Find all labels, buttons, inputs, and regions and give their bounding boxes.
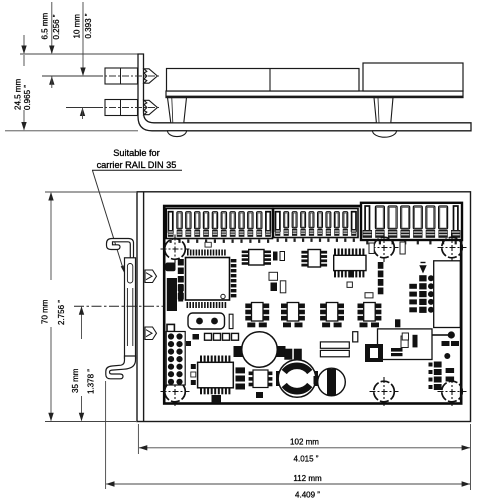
QFN IC U5 top pins <box>200 356 202 362</box>
side view: terminal blocks group 1+2 <box>167 69 360 92</box>
mounting hole 2 <box>374 237 395 258</box>
dimension 6.5 mm line <box>51 2 53 53</box>
terminal strip group 1 <box>166 209 272 239</box>
right edge pads cluster <box>442 341 450 346</box>
passive column left of U1 <box>178 259 184 266</box>
small pads right of J1 <box>178 284 183 289</box>
side view: screw 1 threaded tip <box>144 69 158 83</box>
dimension 102 mm <box>139 447 470 449</box>
svg-text:10 mm: 10 mm <box>73 14 82 39</box>
tiny parts left of U5 <box>191 364 196 369</box>
svg-text:4.409 ”: 4.409 ” <box>295 491 320 500</box>
side view: standoff 1 <box>168 98 187 123</box>
svg-text:2.756 ”: 2.756 ” <box>57 300 66 325</box>
DIN clip body slot <box>127 264 132 284</box>
svg-text:1.378 ”: 1.378 ” <box>87 369 96 394</box>
power module A (right) <box>434 261 461 328</box>
right edge DIP switch column <box>434 362 442 368</box>
svg-text:carrier RAIL DIN 35: carrier RAIL DIN 35 <box>97 160 177 170</box>
pin header 2x7 <box>166 332 185 386</box>
mounting hole 1 <box>165 239 186 260</box>
DIN clip right tab 1 <box>145 270 157 283</box>
wire from module B to pad <box>432 334 448 336</box>
QFN IC U5 body <box>198 362 234 388</box>
side view: screw 2 threaded tip <box>144 100 158 114</box>
QFP IC U1 top pin row <box>187 250 189 256</box>
passive column below hole 2 <box>378 262 384 269</box>
SOIC U2 <box>249 250 264 266</box>
right pads pairs <box>446 368 455 373</box>
caps right of U2 <box>273 252 278 261</box>
SOIC U3 <box>308 250 321 268</box>
electrolytic capacitor C2 <box>314 376 319 385</box>
svg-text:6.5 mm: 6.5 mm <box>41 12 50 39</box>
carrier plate inner fold line <box>143 193 145 422</box>
dimension 112 mm <box>106 483 470 485</box>
mounting hole 3 <box>442 237 463 258</box>
dimension 70 mm <box>50 193 52 280</box>
side view: rivet bump 1 under plate <box>168 131 187 137</box>
regulator U7 <box>365 344 383 362</box>
dimension 35 mm <box>81 307 83 339</box>
side view: screw 2 body <box>105 100 138 116</box>
jumper/relay block with 2 holes <box>188 313 225 329</box>
DIN clip body <box>125 258 136 358</box>
PCB board outline <box>164 206 461 404</box>
mounting hole 4 <box>165 381 186 402</box>
small parts lower right of module B <box>395 319 400 327</box>
electrolytic capacitor C1 <box>242 332 278 368</box>
side view: screw 2 centerline <box>66 107 96 109</box>
QFP IC U1 right pin column <box>231 259 234 298</box>
dimension 10 mm line <box>82 2 84 75</box>
small part below G2 <box>369 243 374 254</box>
DIN clip lower spring hook <box>106 356 136 379</box>
side view: top reference line <box>20 53 138 55</box>
side view: screw 1 centerline <box>42 75 96 77</box>
terminal strip group 3 (heavy) <box>361 203 462 240</box>
dimension 24.5 mm line <box>23 35 25 53</box>
part at bottom border <box>212 395 222 403</box>
small part above U1 <box>205 242 211 247</box>
mounting hole 5 <box>374 381 395 402</box>
svg-text:24.5 mm: 24.5 mm <box>14 79 23 110</box>
mounting hole 6 <box>442 381 463 402</box>
LED indicator block with arrow <box>419 265 426 273</box>
toroid inductor L1 pads above <box>284 349 292 360</box>
carrier plate outline 102x70 <box>137 192 471 422</box>
QFP IC U1 bottom pin row <box>187 302 189 308</box>
side view: terminal block group 3 <box>363 63 463 91</box>
via <box>221 294 225 298</box>
small part below G3 <box>400 242 405 254</box>
svg-text:0.965 ”: 0.965 ” <box>23 85 32 110</box>
leader line to DIN clip <box>93 171 124 271</box>
svg-text:Suitable for: Suitable for <box>113 148 159 158</box>
centerline of DIN rail <box>74 305 164 307</box>
DIN clip upper hook <box>107 239 134 259</box>
side view: rivet bump 2 under plate <box>373 131 397 137</box>
transformer row <box>252 303 264 322</box>
toroid inductor L1 <box>278 360 316 398</box>
70 mm extension lines <box>45 191 136 193</box>
side view: mounting bracket L-profile with carrier plate <box>138 54 471 131</box>
side view: screw 1 body <box>105 68 138 84</box>
svg-text:112 mm: 112 mm <box>293 474 322 483</box>
white box on left edge <box>167 324 174 331</box>
QFP IC U1 body <box>186 258 230 301</box>
mid passives cluster <box>269 272 278 280</box>
DIN clip body channel lines <box>126 288 128 346</box>
toroid inductor L1 side pads <box>276 371 284 386</box>
caps row under relay <box>205 333 212 340</box>
side view: plate bottom edge extension line <box>5 130 138 132</box>
SOIC U4 wide <box>334 249 336 256</box>
svg-text:102 mm: 102 mm <box>290 438 319 447</box>
side view: PCB board bar <box>166 91 463 98</box>
black part on left edge <box>166 263 176 272</box>
bottom extension lines <box>137 424 139 454</box>
svg-text:0.256 ”: 0.256 ” <box>52 14 61 39</box>
svg-text:35 mm: 35 mm <box>71 368 80 393</box>
electrolytic capacitor C1 pads <box>234 346 246 357</box>
small rect column left of toroid <box>236 367 246 373</box>
side view: standoff 2 <box>374 98 393 123</box>
DIN clip right tab 2 <box>145 327 157 340</box>
connector J1 on left edge <box>167 278 177 311</box>
svg-text:70 mm: 70 mm <box>41 299 50 324</box>
mini IC U6 <box>253 370 268 388</box>
power module B (bottom) <box>378 329 433 360</box>
svg-text:0.393 ”: 0.393 ” <box>84 13 93 38</box>
terminal strip group 2 <box>274 209 359 238</box>
svg-text:4.015 ”: 4.015 ” <box>294 455 319 464</box>
resistor bars pair <box>320 342 349 348</box>
